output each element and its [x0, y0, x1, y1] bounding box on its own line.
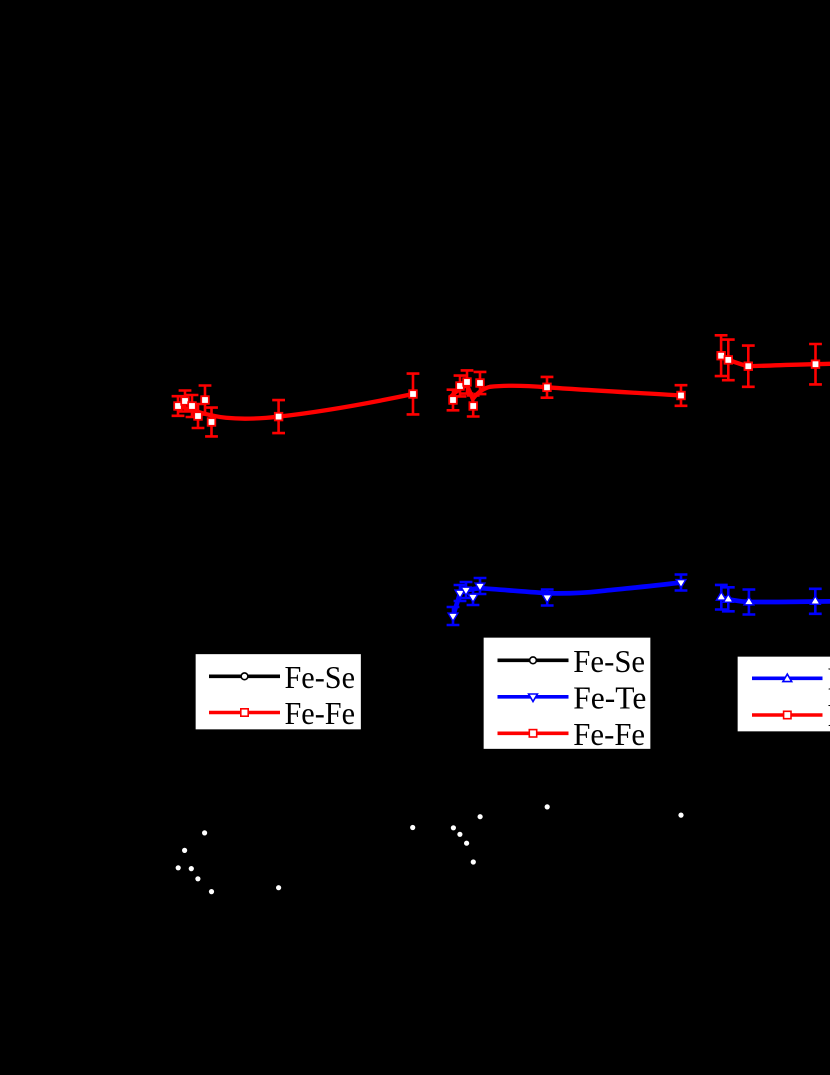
svg-text:Fe-Se: Fe-Se: [285, 660, 356, 695]
blue up-triangle markers panel 3: [716, 592, 726, 600]
red square markers panel 2: [449, 396, 457, 404]
red error bars panel 2: [447, 390, 460, 411]
blue error bars panel 2: [447, 607, 460, 625]
blue Fe-Te curve panel 2: [453, 583, 681, 617]
svg-text:Fe-Se: Fe-Se: [573, 644, 645, 679]
svg-text:Fe-Te: Fe-Te: [573, 681, 646, 716]
red error bars panel 1: [172, 396, 185, 416]
red error bars panel 3: [715, 335, 728, 376]
red Fe-Fe curve panel 2: [451, 385, 681, 399]
red Fe-Fe curve panel 1: [177, 394, 413, 419]
blue Fe-Te curve panel 3: [721, 597, 830, 602]
legend panel 3: [737, 656, 830, 733]
legend panel 2: [483, 637, 651, 752]
legend panel 1: [195, 654, 362, 732]
blue error bars panel 3: [715, 585, 728, 610]
svg-text:Fe-Fe: Fe-Fe: [573, 717, 645, 752]
white circle markers Fe-Se lower panels: [202, 830, 207, 835]
svg-text:Fe-Fe: Fe-Fe: [285, 696, 356, 731]
red Fe-Fe curve panel 3: [720, 356, 830, 367]
red square markers panel 3: [717, 352, 725, 360]
blue down-triangle markers panel 2: [448, 613, 458, 621]
red square markers panel 1: [174, 402, 182, 410]
